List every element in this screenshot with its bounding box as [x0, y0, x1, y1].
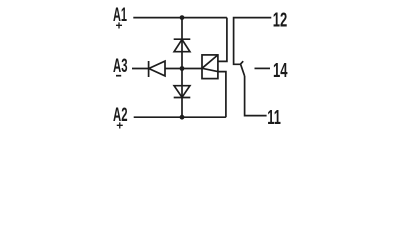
- contact NC tick: [240, 61, 243, 64]
- svg-text:11: 11: [267, 107, 281, 129]
- diode D2 lower (pointing down): [174, 86, 191, 98]
- relay coil K1 box: [202, 55, 218, 79]
- wire A3 diode to coil: [165, 68, 202, 70]
- relay coil polarity chevron: [202, 55, 218, 72]
- diode D1 upper (pointing up): [174, 39, 191, 52]
- wire terminal 14 lead (NO, open): [255, 67, 271, 69]
- wire coil bottom to A2: [218, 72, 226, 118]
- wire A1 to coil top: [218, 18, 227, 62]
- svg-text:+: +: [116, 19, 123, 33]
- wire A3 to diode: [132, 68, 149, 70]
- wire terminal 11 lead: [245, 76, 267, 116]
- svg-text:14: 14: [273, 60, 288, 82]
- wire vertical rail: [181, 18, 183, 118]
- wire A1 horizontal: [133, 17, 227, 19]
- contact blade: [241, 64, 245, 76]
- junction node A3/rail: [180, 66, 185, 71]
- junction node A1/rail: [180, 15, 185, 20]
- wire terminal 12 lead: [234, 18, 272, 65]
- polarity - of A3: [116, 75, 121, 77]
- junction node A2/rail: [180, 115, 185, 120]
- svg-text:+: +: [116, 119, 123, 133]
- svg-text:12: 12: [273, 9, 288, 31]
- wire A2 horizontal: [134, 116, 226, 118]
- diode D3 series in A3 (cathode left): [149, 61, 165, 77]
- svg-text:A3: A3: [113, 56, 128, 77]
